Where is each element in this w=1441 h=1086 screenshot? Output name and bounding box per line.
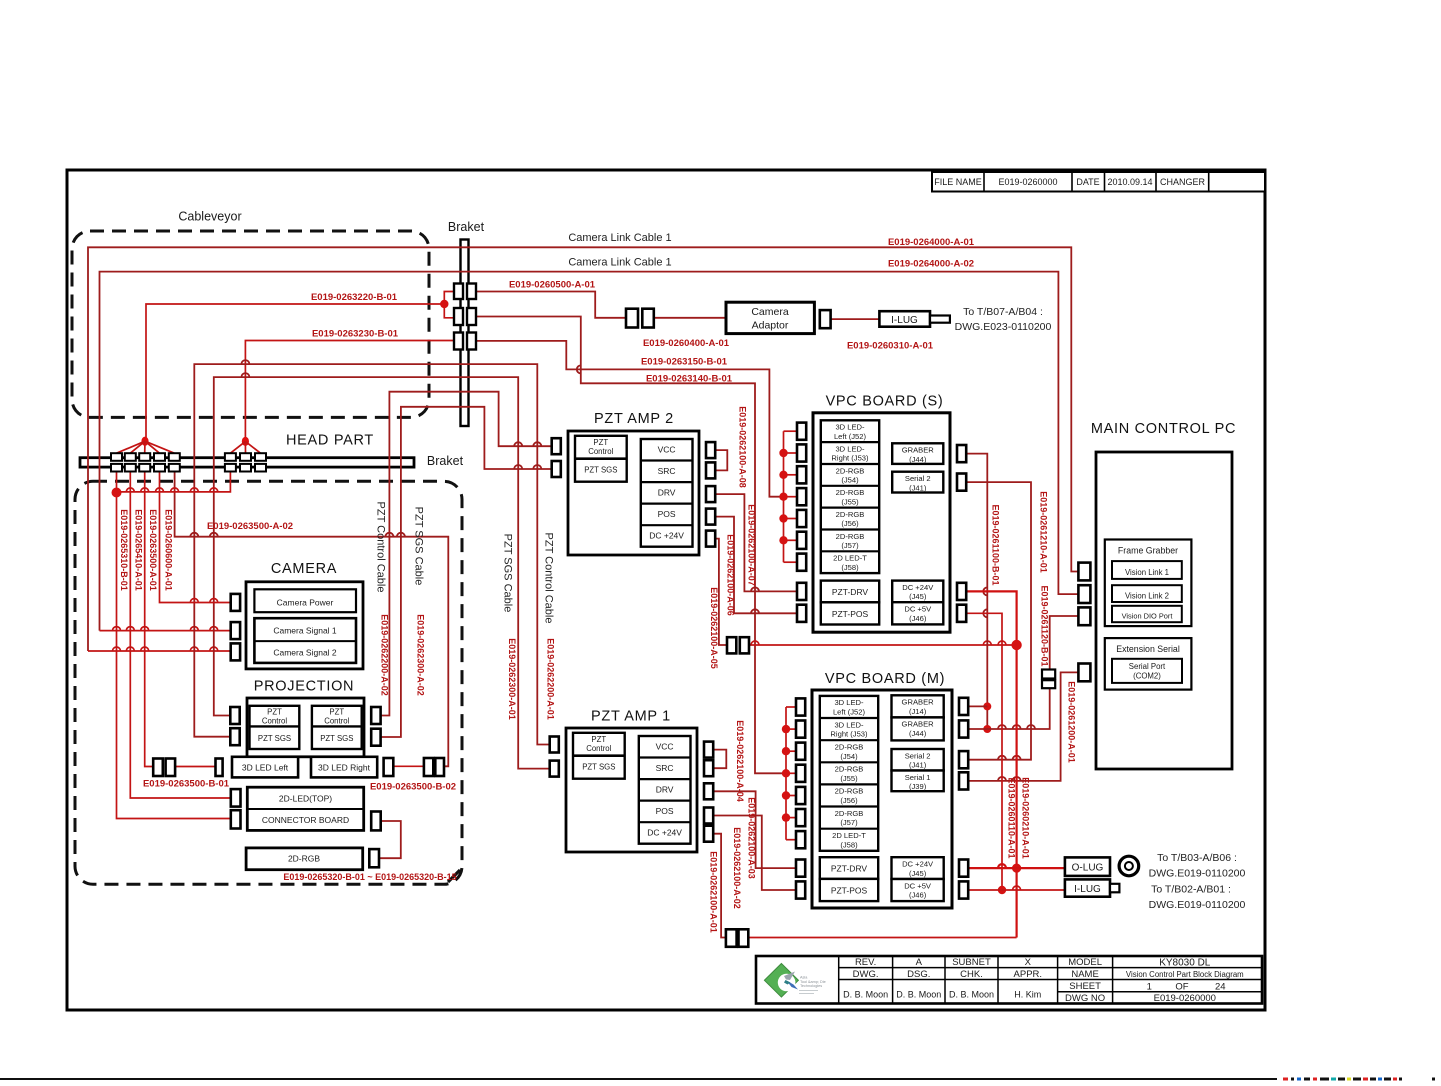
VPC BOARD (S) block bbox=[797, 394, 966, 633]
svg-text:E019-0263140-B-01: E019-0263140-B-01 bbox=[646, 374, 733, 385]
O-LUG bbox=[1065, 857, 1110, 876]
svg-text:MODEL: MODEL bbox=[1068, 957, 1102, 968]
wire: camera signal 1 feed bbox=[100, 630, 231, 632]
wire: Camera Link Cable 1 (top) E019-0264000-A-01 bbox=[88, 247, 1078, 651]
svg-text:PZT AMP 2: PZT AMP 2 bbox=[594, 411, 674, 427]
VPC S left bus bbox=[783, 431, 785, 562]
svg-text:D. B. Moon: D. B. Moon bbox=[843, 990, 888, 1000]
svg-text:E019-0262100-A-07: E019-0262100-A-07 bbox=[747, 504, 757, 586]
svg-text:E019-0261100-B-01: E019-0261100-B-01 bbox=[991, 504, 1001, 585]
svg-text:Control: Control bbox=[588, 447, 613, 456]
svg-text:DWG NO: DWG NO bbox=[1065, 993, 1105, 1004]
svg-text:POS: POS bbox=[656, 806, 674, 816]
svg-text:E019-0262100-A-05: E019-0262100-A-05 bbox=[709, 587, 719, 669]
braket horizontal bar connector pairs group1 bbox=[111, 453, 122, 461]
svg-text:Control: Control bbox=[324, 717, 349, 726]
svg-text:E019-0260000: E019-0260000 bbox=[998, 177, 1057, 187]
2D-LED(TOP) / CONNECTOR BOARD box bbox=[247, 787, 363, 830]
svg-text:DC +24V: DC +24V bbox=[902, 860, 934, 869]
wire: M Serial1 to Serial Port COM2 E019-0261200-A-01 bbox=[967, 672, 1079, 781]
svg-text:E019-0262100-A-08: E019-0262100-A-08 bbox=[738, 406, 748, 488]
svg-text:DRV: DRV bbox=[656, 785, 674, 795]
svg-text:Braket: Braket bbox=[448, 220, 485, 234]
svg-text:2D LED-T: 2D LED-T bbox=[832, 831, 866, 840]
svg-text:To T/B03-A/B06 :: To T/B03-A/B06 : bbox=[1157, 852, 1237, 864]
wire: connector board to 2D-RGB E019-0265320 bbox=[379, 821, 401, 858]
wire: PZT AMP1 POS to M PZT-POS E019-0262100-A-02 bbox=[711, 816, 796, 891]
camera connectors bbox=[231, 594, 240, 611]
svg-text:E019-0262100-A-04: E019-0262100-A-04 bbox=[735, 720, 745, 802]
svg-text:PZT: PZT bbox=[267, 708, 282, 717]
fan dot 2 bbox=[242, 437, 249, 446]
svg-text:PROJECTION: PROJECTION bbox=[254, 679, 354, 695]
wire: head pair3 to 3D LED Left pair bbox=[145, 469, 154, 767]
svg-text:E019-0262100-A-03: E019-0262100-A-03 bbox=[747, 797, 757, 879]
svg-text:(J44): (J44) bbox=[909, 729, 927, 738]
svg-text:VCC: VCC bbox=[658, 445, 676, 455]
svg-text:E019-0263500-A-01: E019-0263500-A-01 bbox=[148, 509, 158, 591]
svg-text:PZT SGS: PZT SGS bbox=[320, 734, 353, 743]
svg-text:2D-RGB: 2D-RGB bbox=[835, 809, 864, 818]
wire: jumper from pair1 dot to bar group2 bbox=[117, 469, 231, 492]
wire: 3D LED Right connector to pair bbox=[393, 765, 424, 767]
wire: PZT Control Cable E019-0262200-A-01 (head left stack to PZT AMP 1) bbox=[194, 364, 549, 744]
svg-text:Technologies: Technologies bbox=[800, 984, 822, 988]
serial stacked pair connectors bbox=[1042, 670, 1055, 679]
svg-text:Left (J52): Left (J52) bbox=[833, 708, 866, 717]
svg-text:E019-0262200-A-02: E019-0262200-A-02 bbox=[380, 614, 390, 696]
svg-text:D. B. Moon: D. B. Moon bbox=[896, 990, 941, 1000]
svg-text:I-LUG: I-LUG bbox=[891, 315, 918, 326]
svg-text:E019-0260310-A-01: E019-0260310-A-01 bbox=[847, 341, 934, 352]
VPC BOARD (M) block bbox=[796, 671, 968, 908]
Braket horizontal bar bbox=[80, 458, 414, 467]
corner mark bbox=[448, 870, 460, 882]
svg-text:E019-0264000-A-02: E019-0264000-A-02 bbox=[888, 259, 974, 270]
wire E019-0263150-B-01 (braket pair3 to VPC S bus) bbox=[476, 341, 783, 497]
svg-text:DC +5V: DC +5V bbox=[904, 605, 932, 614]
svg-text:Braket: Braket bbox=[427, 454, 464, 468]
svg-text:Right (J53): Right (J53) bbox=[831, 454, 869, 463]
svg-text:GRABER: GRABER bbox=[902, 698, 935, 707]
svg-text:(J44): (J44) bbox=[909, 455, 927, 464]
VPC BOARD (M) left connectors bbox=[796, 698, 805, 715]
PZT AMP 2 right connectors bbox=[706, 442, 715, 458]
svg-text:(J46): (J46) bbox=[909, 891, 927, 900]
wire: PZT SGS Cable E019-0262300-A-02 bbox=[381, 407, 552, 737]
svg-text:DC +24V: DC +24V bbox=[902, 583, 934, 592]
svg-text:E019-0262300-A-01: E019-0262300-A-01 bbox=[507, 638, 517, 720]
svg-text:2D-LED(TOP): 2D-LED(TOP) bbox=[279, 794, 332, 804]
wire E019-0263230-B-01 bbox=[245, 341, 454, 442]
wire: PZT SGS Cable E019-0262300-A-01 bbox=[214, 377, 550, 768]
svg-text:E019-0263220-B-01: E019-0263220-B-01 bbox=[311, 292, 398, 303]
wire: camera adaptor to I-LUG E019-0260310-A-01 bbox=[831, 318, 880, 320]
Braket vertical bar bbox=[461, 240, 469, 427]
svg-text:3D LED-: 3D LED- bbox=[835, 444, 865, 453]
svg-text:(J54): (J54) bbox=[841, 476, 859, 485]
svg-text:E019-0262100-A-02: E019-0262100-A-02 bbox=[732, 827, 742, 909]
bottom-right tiny colored marks bbox=[1283, 1078, 1435, 1081]
Cableveyor dashed enclosure bbox=[72, 231, 429, 417]
svg-text:To T/B02-A/B01 :: To T/B02-A/B01 : bbox=[1151, 884, 1231, 896]
svg-text:2D-RGB: 2D-RGB bbox=[835, 742, 864, 751]
svg-text:E019-0261210-A-01: E019-0261210-A-01 bbox=[1039, 491, 1049, 573]
svg-text:Camera Power: Camera Power bbox=[277, 598, 334, 608]
wire: M Serial2 to S Serial2 E019-0261210-A-01 bbox=[966, 482, 1031, 760]
VPC M left bus bbox=[785, 707, 787, 840]
wire E019-0263140-B-01 (braket pair2 to VPC M bus) bbox=[476, 317, 786, 774]
svg-text:(J55): (J55) bbox=[841, 497, 859, 506]
wire: PZT AMP1 DC+24V to bottom pair E019-0262100-A-01 bbox=[711, 834, 726, 938]
wire: Camera Link Cable 2 E019-0264000-A-02 bbox=[100, 272, 1079, 631]
svg-text:Serial Port: Serial Port bbox=[1129, 662, 1166, 671]
+24V pair connectors (AMP1, bottom) bbox=[726, 929, 737, 947]
wire: PZT AMP2 DC+24V to pair E019-0262100-A-05 bbox=[715, 539, 727, 645]
svg-text:(J41): (J41) bbox=[909, 761, 927, 770]
svg-text:E019-0265410-A-01: E019-0265410-A-01 bbox=[133, 509, 143, 591]
svg-text:Frame Grabber: Frame Grabber bbox=[1118, 546, 1178, 556]
svg-text:DC +24V: DC +24V bbox=[647, 828, 682, 838]
svg-text:(J57): (J57) bbox=[841, 541, 859, 550]
svg-text:PZT: PZT bbox=[329, 708, 344, 717]
svg-text:Vision Link 1: Vision Link 1 bbox=[1125, 568, 1169, 577]
VPC BOARD (S) right connectors bbox=[957, 445, 966, 462]
svg-text:E019-0262100-A-01: E019-0262100-A-01 bbox=[709, 851, 719, 933]
title block bbox=[756, 956, 1262, 1004]
svg-text:2D-RGB: 2D-RGB bbox=[836, 466, 865, 475]
svg-text:DWG.E019-0110200: DWG.E019-0110200 bbox=[1149, 868, 1246, 880]
svg-text:CHK.: CHK. bbox=[960, 969, 983, 980]
svg-text:X: X bbox=[1025, 957, 1032, 968]
svg-text:I-LUG: I-LUG bbox=[1074, 884, 1101, 895]
svg-text:Camera Signal 2: Camera Signal 2 bbox=[273, 648, 337, 658]
svg-text:E019-0262300-A-02: E019-0262300-A-02 bbox=[416, 614, 426, 696]
PZT AMP 1 right connectors bbox=[704, 742, 713, 758]
wire: PZT AMP2 VCC-SRC loop E019-0262100-A-08 bbox=[715, 450, 727, 470]
svg-text:E019-0261120-B-01: E019-0261120-B-01 bbox=[1040, 585, 1050, 666]
I-LUG (bottom) bbox=[1065, 879, 1110, 896]
svg-text:MAIN CONTROL PC: MAIN CONTROL PC bbox=[1091, 421, 1236, 437]
svg-text:2D-RGB: 2D-RGB bbox=[288, 854, 320, 864]
svg-text:Right (J53): Right (J53) bbox=[830, 730, 868, 739]
svg-text:Serial 2: Serial 2 bbox=[905, 474, 931, 483]
wire: head pair2 to 2D-LED(TOP) bbox=[130, 469, 231, 798]
svg-text:PZT-DRV: PZT-DRV bbox=[831, 864, 868, 874]
svg-text:REV.: REV. bbox=[855, 957, 876, 968]
svg-text:E019-0260500-A-01: E019-0260500-A-01 bbox=[509, 280, 596, 291]
PROJECTION block bbox=[153, 679, 444, 870]
svg-text:APPR.: APPR. bbox=[1014, 969, 1043, 980]
svg-text:2D-RGB: 2D-RGB bbox=[836, 510, 865, 519]
svg-text:CAMERA: CAMERA bbox=[271, 561, 337, 577]
svg-text:3D LED-: 3D LED- bbox=[834, 698, 864, 707]
svg-text:1: 1 bbox=[1147, 982, 1152, 993]
wire: PZT Control Cable E019-0262200-A-02 (projection right stack to PZT AMP 2) bbox=[381, 392, 552, 716]
svg-text:H. Kim: H. Kim bbox=[1014, 990, 1041, 1000]
svg-text:Camera: Camera bbox=[751, 306, 789, 318]
svg-text:PZT SGS: PZT SGS bbox=[258, 734, 291, 743]
svg-text:DSG.: DSG. bbox=[907, 969, 930, 980]
svg-text:DC +5V: DC +5V bbox=[904, 881, 932, 890]
fan wires group2 bbox=[230, 441, 245, 453]
fan dot 1 over braket bar bbox=[141, 437, 148, 446]
svg-text:E019-0262200-A-01: E019-0262200-A-01 bbox=[546, 638, 556, 720]
wire: head pair1 to CONNECTOR BOARD bbox=[117, 469, 231, 819]
svg-text:O-LUG: O-LUG bbox=[1072, 863, 1104, 874]
svg-text:POS: POS bbox=[658, 509, 676, 519]
svg-text:D. B. Moon: D. B. Moon bbox=[949, 990, 994, 1000]
svg-text:(J39): (J39) bbox=[909, 782, 927, 791]
svg-text:E019-0263500-B-02: E019-0263500-B-02 bbox=[370, 782, 456, 793]
Extension Serial bbox=[1105, 638, 1192, 690]
company logo bbox=[764, 964, 798, 998]
Frame Grabber bbox=[1105, 540, 1192, 627]
svg-text:PZT Control Cable: PZT Control Cable bbox=[375, 502, 387, 593]
svg-text:DATE: DATE bbox=[1076, 177, 1099, 187]
svg-text:Cableveyor: Cableveyor bbox=[178, 210, 241, 224]
2D-RGB box bbox=[246, 848, 363, 870]
svg-text:(J55): (J55) bbox=[840, 774, 858, 783]
svg-text:KY8030 DL: KY8030 DL bbox=[1159, 958, 1211, 969]
braket vertical bar connector pairs bbox=[454, 284, 463, 300]
svg-text:E019-0263500-A-02: E019-0263500-A-02 bbox=[207, 521, 293, 532]
svg-text:E019-0260600-A-01: E019-0260600-A-01 bbox=[164, 509, 174, 591]
wire: bottom +24V run bbox=[748, 937, 1016, 939]
svg-text:(J14): (J14) bbox=[909, 707, 927, 716]
junction dot on pair1 vertical bbox=[112, 488, 122, 498]
wire E019-0263500-A-02 (braket bar to 3D LED Right pair) bbox=[175, 469, 449, 766]
PZT AMP 1 left connectors bbox=[550, 737, 559, 753]
svg-text:SRC: SRC bbox=[658, 466, 676, 476]
svg-text:PZT SGS: PZT SGS bbox=[582, 763, 615, 772]
svg-text:DWG.: DWG. bbox=[853, 969, 879, 980]
3D LED Left box bbox=[232, 757, 298, 778]
svg-text:PZT-POS: PZT-POS bbox=[831, 886, 868, 896]
svg-text:E019-0260110-A-01: E019-0260110-A-01 bbox=[1006, 777, 1016, 858]
wire: head pair4 to Camera Power bbox=[160, 469, 231, 603]
svg-text:CONNECTOR BOARD: CONNECTOR BOARD bbox=[262, 815, 349, 825]
svg-text:DC +24V: DC +24V bbox=[649, 531, 684, 541]
wire: M GRABER J44 to Vision DIO Port E019-0261120-B-01 bbox=[967, 616, 1079, 729]
svg-text:3D LED Right: 3D LED Right bbox=[318, 763, 371, 773]
svg-text:To T/B07-A/B04 :: To T/B07-A/B04 : bbox=[963, 306, 1043, 318]
svg-text:(J56): (J56) bbox=[841, 519, 859, 528]
3D LED right pair connectors bbox=[424, 758, 433, 776]
svg-text:DRV: DRV bbox=[658, 488, 676, 498]
svg-text:E019-0264000-A-01: E019-0264000-A-01 bbox=[888, 237, 975, 248]
svg-text:3D LED-: 3D LED- bbox=[835, 423, 865, 432]
svg-text:HEAD PART: HEAD PART bbox=[286, 433, 374, 449]
svg-text:PZT-POS: PZT-POS bbox=[832, 609, 869, 619]
camera adaptor left pair connectors bbox=[626, 309, 638, 328]
main pc connectors bbox=[1078, 563, 1090, 581]
svg-text:2D-RGB: 2D-RGB bbox=[835, 765, 864, 774]
svg-text:VPC BOARD (S): VPC BOARD (S) bbox=[826, 394, 944, 410]
svg-text:2D LED-T: 2D LED-T bbox=[833, 554, 867, 563]
svg-text:PZT SGS Cable: PZT SGS Cable bbox=[413, 507, 425, 586]
svg-text:Left (J52): Left (J52) bbox=[834, 432, 867, 441]
svg-text:E019-0263230-B-01: E019-0263230-B-01 bbox=[312, 329, 399, 340]
svg-text:E019-0260400-A-01: E019-0260400-A-01 bbox=[643, 338, 730, 349]
MAIN CONTROL PC block bbox=[1042, 421, 1236, 769]
svg-text:Vision Control Part Block Diag: Vision Control Part Block Diagram bbox=[1126, 970, 1244, 979]
svg-text:2D-RGB: 2D-RGB bbox=[835, 787, 864, 796]
svg-text:Serial 1: Serial 1 bbox=[905, 773, 931, 782]
wire E019-0263220-B-01 bbox=[146, 304, 444, 442]
svg-text:E019-0263150-B-01: E019-0263150-B-01 bbox=[641, 357, 728, 368]
svg-text:E019-0262100-A-06: E019-0262100-A-06 bbox=[726, 534, 736, 616]
wire: S GRABER J44 to M GRABER J14 E019-0261100-B-01 bbox=[966, 454, 988, 729]
svg-text:E019-0263500-B-01: E019-0263500-B-01 bbox=[143, 779, 230, 790]
svg-text:Camera Signal 1: Camera Signal 1 bbox=[273, 626, 337, 636]
wire: 3D LED Left pair to connector bbox=[175, 766, 215, 768]
wire: PZT AMP2 POS to S PZT-POS E019-0262100-A-06 bbox=[715, 517, 797, 614]
wire: M DC+5V to I-LUG bbox=[967, 889, 1065, 891]
svg-text:SUBNET: SUBNET bbox=[952, 957, 991, 968]
svg-text:(J56): (J56) bbox=[840, 796, 858, 805]
PZT AMP 2 block bbox=[552, 411, 716, 555]
svg-text:(J41): (J41) bbox=[909, 483, 927, 492]
svg-text:(J45): (J45) bbox=[909, 869, 927, 878]
svg-text:SHEET: SHEET bbox=[1069, 981, 1101, 992]
fan wires group1 bbox=[117, 441, 146, 453]
svg-text:PZT: PZT bbox=[591, 735, 606, 744]
svg-text:(J57): (J57) bbox=[840, 818, 858, 827]
wire E019-0260500-A-01 (braket pair1 to camera adaptor) bbox=[476, 292, 626, 318]
wire: +5V rail E019-0260110-A-01 bbox=[966, 613, 1002, 890]
svg-text:24: 24 bbox=[1215, 982, 1226, 993]
svg-text:PZT Control Cable: PZT Control Cable bbox=[543, 533, 555, 624]
svg-text:(J58): (J58) bbox=[840, 840, 858, 849]
svg-text:NAME: NAME bbox=[1071, 969, 1098, 980]
svg-text:(COM2): (COM2) bbox=[1133, 672, 1161, 681]
svg-text:CHANGER: CHANGER bbox=[1160, 177, 1206, 187]
svg-text:Camera Link Cable 1: Camera Link Cable 1 bbox=[568, 257, 671, 269]
+24V pair connectors (AMP2) bbox=[727, 637, 736, 653]
svg-text:(J46): (J46) bbox=[909, 614, 927, 623]
svg-text:GRABER: GRABER bbox=[902, 446, 935, 455]
svg-text:PZT AMP 1: PZT AMP 1 bbox=[591, 709, 671, 725]
svg-text:2010.09.14: 2010.09.14 bbox=[1107, 177, 1152, 187]
svg-text:SRC: SRC bbox=[656, 763, 674, 773]
svg-text:E019-0260000: E019-0260000 bbox=[1154, 993, 1216, 1004]
svg-text:E019-0261200-A-01: E019-0261200-A-01 bbox=[1067, 681, 1077, 763]
wire: PZT AMP1 DRV to M PZT-DRV E019-0262100-A-03 bbox=[711, 791, 796, 868]
wire: PZT AMP1 VCC-SRC loop E019-0262100-A-04 bbox=[711, 750, 726, 769]
svg-text:PZT: PZT bbox=[593, 438, 608, 447]
svg-text:PZT SGS: PZT SGS bbox=[584, 466, 617, 475]
bottom page rule line bbox=[0, 1078, 1277, 1080]
svg-text:DWG.E019-0110200: DWG.E019-0110200 bbox=[1149, 899, 1246, 911]
svg-text:Control: Control bbox=[586, 744, 611, 753]
VPC BOARD (M) right connectors bbox=[959, 698, 968, 715]
svg-text:Vision Link 2: Vision Link 2 bbox=[1125, 592, 1169, 601]
I-LUG (top) bbox=[879, 311, 930, 327]
svg-text:E019-0265320-B-01 ~ E019-02653: E019-0265320-B-01 ~ E019-0265320-B-15 bbox=[283, 872, 456, 882]
svg-text:VCC: VCC bbox=[656, 742, 674, 752]
svg-text:E019-0260210-A-01: E019-0260210-A-01 bbox=[1020, 777, 1030, 859]
svg-text:(J58): (J58) bbox=[841, 563, 859, 572]
wire: +24V run from pair to rail bbox=[749, 644, 1017, 646]
svg-text:(J54): (J54) bbox=[840, 752, 858, 761]
svg-text:2D-RGB: 2D-RGB bbox=[836, 488, 865, 497]
wire: M DC+24V to O-LUG bbox=[967, 867, 1065, 869]
wire: PZT AMP2 DRV to S PZT-DRV E019-0262100-A-07 bbox=[715, 494, 797, 591]
svg-text:3D LED-: 3D LED- bbox=[834, 720, 864, 729]
PZT AMP 2 left connectors bbox=[552, 438, 561, 454]
Head part dashed enclosure bbox=[75, 481, 462, 884]
svg-text:Control: Control bbox=[262, 717, 287, 726]
PZT AMP 1 block bbox=[550, 709, 714, 853]
camera adaptor right connector bbox=[820, 310, 831, 328]
O-LUG ring bbox=[1119, 856, 1139, 876]
svg-text:OF: OF bbox=[1175, 982, 1188, 993]
junction dot bbox=[440, 300, 448, 308]
VPC BOARD (S) left connectors bbox=[797, 423, 806, 440]
wire: +24V rail E019-0260210-A-01 bbox=[966, 591, 1017, 937]
file name header table bbox=[932, 172, 1265, 192]
svg-text:FILE NAME: FILE NAME bbox=[934, 177, 982, 187]
svg-text:2D-RGB: 2D-RGB bbox=[836, 532, 865, 541]
svg-text:Adaptor: Adaptor bbox=[752, 320, 789, 332]
svg-text:GRABER: GRABER bbox=[902, 720, 935, 729]
svg-text:PZT-DRV: PZT-DRV bbox=[832, 587, 869, 597]
svg-text:(J45): (J45) bbox=[909, 592, 927, 601]
svg-text:DWG.E023-0110200: DWG.E023-0110200 bbox=[955, 321, 1052, 333]
braket horizontal bar connector pairs group2 bbox=[225, 453, 236, 461]
svg-text:Vision DIO Port: Vision DIO Port bbox=[1122, 612, 1173, 621]
3D LED left pair connectors bbox=[153, 759, 163, 777]
wire: camera signal 2 feed bbox=[88, 650, 231, 652]
svg-text:PZT SGS Cable: PZT SGS Cable bbox=[502, 534, 514, 613]
projection connectors bbox=[230, 707, 239, 724]
drawing frame border bbox=[67, 170, 1265, 1010]
Camera Adaptor box bbox=[726, 302, 814, 333]
svg-text:VPC BOARD (M): VPC BOARD (M) bbox=[825, 671, 945, 687]
wire: M GRABER J14 stub bbox=[967, 705, 988, 707]
CAMERA block bbox=[231, 561, 363, 669]
svg-text:3D LED Left: 3D LED Left bbox=[242, 763, 289, 773]
svg-text:A: A bbox=[916, 957, 923, 968]
svg-text:Camera Link Cable 1: Camera Link Cable 1 bbox=[568, 232, 671, 244]
svg-text:Extension Serial: Extension Serial bbox=[1116, 644, 1180, 654]
3D LED Right box bbox=[311, 757, 377, 778]
svg-text:Serial 2: Serial 2 bbox=[905, 751, 931, 760]
svg-text:E019-0265310-B-01: E019-0265310-B-01 bbox=[119, 509, 129, 591]
